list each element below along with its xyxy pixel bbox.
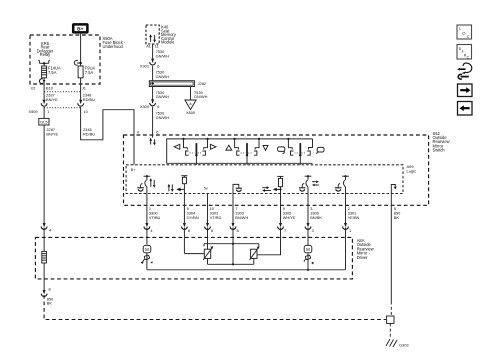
motor M1 — [141, 245, 153, 269]
svg-text:RD/BU: RD/BU — [83, 131, 95, 136]
junction bar J282 — [149, 81, 194, 87]
left wire connector pin 4 — [41, 223, 52, 233]
pot2 — [250, 246, 260, 264]
svg-text:7: 7 — [284, 228, 286, 233]
svg-text:X301: X301 — [140, 63, 149, 68]
pole bar 2 — [246, 143, 248, 165]
splice pack X800 triangle — [185, 100, 196, 110]
relay KR5 label — [37, 41, 54, 57]
logic inner dashed box — [126, 165, 403, 194]
svg-text:X800: X800 — [186, 110, 196, 115]
svg-text:8: 8 — [49, 287, 51, 292]
c8 corner in logic — [391, 185, 397, 194]
c8 wire 850 BK down — [390, 194, 392, 302]
dashed ground run — [44, 295, 386, 320]
wire label 7530 GN/WH — [156, 70, 170, 79]
c6 arrows — [312, 180, 319, 186]
c1 driver arrows — [150, 178, 156, 188]
connector X300 — [150, 99, 156, 105]
connector X509 right arc — [78, 100, 84, 106]
c2 wire below logic — [183, 194, 185, 224]
pot rail from c4 — [204, 243, 259, 247]
c2 corner to pot1 — [184, 253, 204, 255]
A8A label — [357, 238, 374, 260]
right wire dashed to square — [390, 302, 392, 317]
c1 wire below logic — [146, 194, 148, 224]
svg-text:BN/WH: BN/WH — [235, 215, 248, 220]
svg-text:B+: B+ — [77, 27, 83, 33]
svg-text:X2: X2 — [31, 86, 36, 91]
wire X300 to S62 — [152, 107, 154, 138]
wire F9UA down — [80, 78, 82, 103]
unit3 contact from bus — [234, 138, 246, 155]
right arrow triangle — [210, 144, 216, 149]
pin and wire labels below S62 — [149, 206, 401, 220]
resistor R on c5 — [277, 176, 283, 193]
c6 switch to ground in logic — [299, 175, 312, 193]
svg-text:BN/YE: BN/YE — [46, 97, 58, 102]
A8A outside rearview mirror dashed box — [35, 237, 352, 279]
inline square connector — [387, 316, 394, 323]
K40 driver arrows — [149, 34, 156, 42]
pin labels X2 B10 J1 — [31, 86, 86, 91]
wire relay to fuse F14UA — [43, 63, 45, 66]
fuse F9UA — [78, 66, 83, 78]
svg-text:YE/BN: YE/BN — [348, 215, 360, 220]
driver arrows inside S62 top — [149, 138, 156, 146]
c5 arrows cluster — [262, 186, 280, 192]
svg-text:J1: J1 — [82, 86, 86, 91]
icon LOC — [457, 25, 472, 39]
wire B+ to fuse block — [80, 33, 82, 67]
svg-text:BN/YE: BN/YE — [46, 131, 58, 136]
S62 label — [433, 131, 450, 153]
B+ battery box — [73, 24, 87, 32]
switch contact bus box (solid) — [167, 139, 313, 163]
DL5 option box — [39, 118, 49, 125]
svg-text:B10: B10 — [46, 86, 54, 91]
svg-text:8: 8 — [237, 228, 239, 233]
svg-text:BK: BK — [394, 215, 400, 220]
up arrow triangle — [226, 145, 232, 150]
fuse block X50A dashed box — [30, 35, 100, 84]
down arrow triangle — [263, 146, 268, 151]
c1 switch to ground in logic — [137, 175, 150, 193]
wire F14UA down — [43, 78, 45, 103]
svg-text:WH/YE: WH/YE — [283, 215, 296, 220]
icon next arrow — [458, 84, 473, 97]
wire J282 down left — [152, 87, 154, 104]
svg-text:RD/BU: RD/BU — [83, 97, 95, 102]
svg-text:G303: G303 — [399, 343, 409, 348]
svg-text:M: M — [145, 247, 149, 252]
svg-text:Underhood: Underhood — [103, 44, 124, 49]
connector X509 left arc — [41, 100, 47, 106]
c6 wire below logic — [307, 194, 309, 224]
icon DFRC — [457, 45, 472, 60]
heater element — [42, 251, 47, 263]
svg-text:M: M — [306, 247, 310, 252]
unit2 contact from bus — [198, 138, 209, 155]
label X50A Fuse Block - Underhood — [103, 36, 126, 49]
motor M2 — [304, 245, 314, 269]
connector arcs row — [144, 223, 348, 229]
lower pin labels — [150, 228, 351, 233]
wire to J282 — [152, 66, 154, 81]
K40 seat memory module dashed box — [146, 25, 159, 44]
svg-text:BK: BK — [47, 301, 53, 306]
dashed to ground — [389, 323, 391, 338]
dotted line X509 — [44, 107, 81, 109]
svg-text:GN/WH: GN/WH — [156, 94, 170, 99]
dotted connector line fuse block — [44, 91, 81, 93]
c7 wire below logic — [345, 194, 347, 224]
svg-text:3: 3 — [312, 228, 314, 233]
pole bar 1 — [195, 143, 197, 165]
wire label 2287 BN/YE lower — [46, 127, 58, 136]
S62 outside rearview mirror switch dashed box — [124, 135, 429, 205]
motor common rail M1 M2 to c7 — [147, 269, 346, 271]
unit1 contact from bus — [182, 138, 194, 155]
wire label 2348 RD/BU — [83, 93, 95, 102]
svg-text:X300: X300 — [140, 104, 150, 109]
wire label 7530 GN/WH — [156, 49, 170, 58]
unit6 contact from bus end — [302, 139, 313, 155]
svg-text:7.5A: 7.5A — [85, 70, 94, 75]
icon wrench with arrows — [457, 63, 472, 79]
svg-text:GN/WH: GN/WH — [156, 115, 170, 120]
c4 ground in logic — [233, 184, 242, 193]
connector hook on left wire — [39, 79, 42, 84]
pot1 — [203, 246, 213, 264]
svg-text:6: 6 — [157, 104, 159, 109]
svg-text:O: O — [462, 30, 465, 35]
svg-text:7.5A: 7.5A — [48, 70, 57, 75]
svg-text:6: 6 — [157, 64, 159, 69]
mid arrows cluster — [168, 184, 185, 192]
K40 label — [161, 25, 177, 45]
wire label 2287 BN/YE — [46, 93, 58, 102]
left wire exit mirror box — [41, 287, 50, 297]
wire label 2348 RD/BU lower — [83, 127, 95, 136]
c5 wire below logic — [280, 194, 282, 224]
svg-text:B+: B+ — [131, 168, 136, 172]
svg-text:GN/WH: GN/WH — [156, 53, 170, 58]
svg-text:L: L — [459, 27, 461, 31]
pins A1 11 — [146, 43, 159, 48]
fuse F9UA hook — [77, 62, 81, 64]
svg-text:8: 8 — [188, 228, 190, 233]
wire to DL5 — [43, 107, 45, 118]
wire DL5 down to mirror — [43, 125, 45, 223]
svg-text:VT/RD: VT/RD — [210, 215, 222, 220]
svg-text:BN/BK: BN/BK — [310, 215, 322, 220]
pole bar 3 — [299, 143, 301, 165]
mirror select left flag — [278, 147, 285, 154]
svg-text:GY/BN: GY/BN — [187, 215, 199, 220]
mirror select right flag — [317, 147, 324, 154]
ground G303 — [386, 339, 397, 347]
wire J282 right drop — [190, 87, 192, 101]
svg-text:1: 1 — [349, 228, 351, 233]
c3 wire from logic bottom — [207, 194, 209, 224]
wire 2348 jog to switch — [81, 107, 134, 165]
unit4 contact from bus — [248, 138, 260, 155]
svg-text:6: 6 — [211, 228, 213, 233]
svg-text:Relay: Relay — [40, 52, 51, 57]
logic label — [407, 164, 417, 173]
c4 wire below logic — [232, 194, 234, 224]
svg-text:6: 6 — [156, 129, 158, 134]
svg-text:Switch: Switch — [433, 148, 446, 153]
wire K40 down — [152, 44, 154, 62]
svg-text:1: 1 — [47, 109, 49, 114]
icon back arrow — [458, 102, 473, 116]
pot bottom rail — [208, 244, 254, 266]
svg-text:11: 11 — [155, 43, 159, 48]
svg-text:X509: X509 — [29, 109, 38, 114]
relay KR5 contact — [38, 60, 50, 65]
svg-text:C: C — [467, 35, 470, 39]
resistor R on c2 — [181, 176, 187, 194]
svg-text:J282: J282 — [198, 81, 206, 86]
svg-text:Logic: Logic — [407, 169, 417, 174]
svg-text:DL5: DL5 — [40, 120, 47, 125]
svg-text:Driver: Driver — [357, 255, 369, 260]
fuse F14UA — [42, 66, 47, 78]
svg-text:VT/BU: VT/BU — [149, 215, 161, 220]
svg-text:5v: 5v — [204, 186, 208, 190]
svg-text:A1: A1 — [146, 43, 151, 48]
c7 switch to ground in logic — [335, 175, 349, 193]
svg-text:GN/WH: GN/WH — [156, 74, 170, 79]
wires into mirror box — [43, 228, 45, 252]
connector X301 — [150, 59, 156, 65]
svg-text:Module: Module — [161, 40, 175, 45]
left arrow triangle — [174, 144, 180, 149]
svg-text:GN/WH: GN/WH — [194, 94, 208, 99]
unit5 contact from bus — [287, 138, 299, 155]
